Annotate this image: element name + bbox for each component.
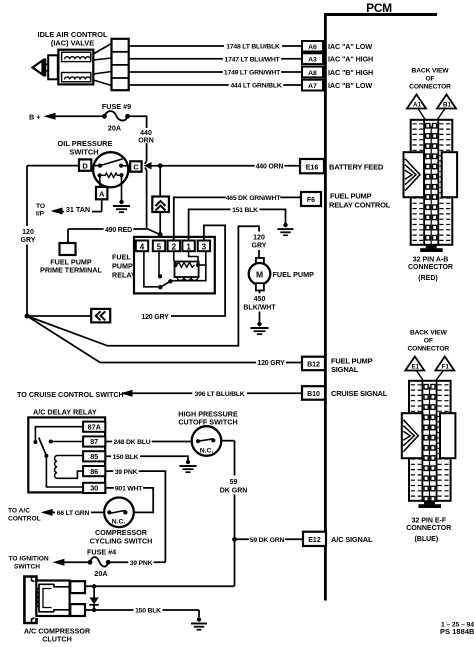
wire 59 DK GRN vertical bbox=[219, 441, 250, 587]
wire 1749 LT GRN/WHT bbox=[129, 69, 302, 77]
svg-text:PUMP: PUMP bbox=[112, 262, 133, 271]
svg-text:OF: OF bbox=[426, 76, 435, 83]
PCM pin B12 FUEL PUMP SIGNAL bbox=[302, 357, 373, 375]
A/C delay relay bbox=[28, 408, 105, 494]
svg-text:465 DK GRN/WHT: 465 DK GRN/WHT bbox=[226, 195, 282, 202]
svg-text:BACK VIEW: BACK VIEW bbox=[412, 68, 450, 75]
wire 440 ORN down to relay bbox=[159, 166, 161, 197]
wire 444 LT GRN/BLK bbox=[129, 82, 302, 90]
svg-text:TO CRUISE CONTROL SWITCH: TO CRUISE CONTROL SWITCH bbox=[17, 390, 124, 399]
svg-text:OIL PRESSURE: OIL PRESSURE bbox=[58, 139, 113, 148]
svg-text:30: 30 bbox=[90, 484, 98, 493]
inline connector symbol (up chevrons) bbox=[152, 197, 169, 213]
svg-text:PS 1884B: PS 1884B bbox=[440, 627, 474, 636]
wire 901 WHT bbox=[105, 485, 153, 513]
svg-text:BATTERY FEED: BATTERY FEED bbox=[329, 163, 384, 172]
svg-text:A1: A1 bbox=[413, 102, 421, 109]
wire 120 GRY fuel pump signal to B12 bbox=[27, 316, 302, 367]
fuel pump relay bbox=[112, 237, 215, 294]
svg-text:TO IGNITION: TO IGNITION bbox=[9, 556, 49, 563]
wire 120 GRY to fuel pump bbox=[27, 226, 269, 345]
32 pin A-B connector back view (RED) bbox=[404, 68, 458, 283]
diode across clutch coil bbox=[89, 584, 98, 612]
svg-text:RELAY CONTROL: RELAY CONTROL bbox=[329, 201, 391, 210]
PCM pin A8 IAC B HIGH bbox=[302, 67, 373, 78]
svg-text:1: 1 bbox=[186, 243, 191, 252]
svg-text:SWITCH: SWITCH bbox=[14, 564, 40, 571]
svg-text:396 LT BLU/BLK: 396 LT BLU/BLK bbox=[195, 391, 245, 398]
wire 66 LT GRN to A/C control bbox=[8, 507, 104, 522]
fuel pump prime terminal bbox=[40, 243, 103, 275]
svg-text:CRUISE SIGNAL: CRUISE SIGNAL bbox=[331, 389, 388, 398]
PCM pin F6 FUEL PUMP RELAY CONTROL bbox=[301, 192, 391, 210]
wire 396 LT BLU/BLK cruise signal bbox=[17, 390, 302, 399]
wire 440 ORN from fuse bbox=[128, 116, 157, 229]
B+ feed arrow bbox=[29, 112, 104, 121]
svg-text:59 DK GRN: 59 DK GRN bbox=[250, 537, 285, 544]
svg-text:CONNECTOR: CONNECTOR bbox=[408, 264, 453, 271]
svg-text:86: 86 bbox=[90, 467, 98, 476]
PCM pin B10 CRUISE SIGNAL bbox=[302, 386, 388, 400]
svg-text:N.C.: N.C. bbox=[200, 447, 214, 454]
svg-text:SIGNAL: SIGNAL bbox=[331, 365, 359, 374]
svg-text:(BLUE): (BLUE) bbox=[414, 536, 438, 543]
wire 120 GRY to oil pressure switch (left riser) bbox=[18, 166, 79, 316]
svg-text:32 PIN A-B: 32 PIN A-B bbox=[413, 257, 449, 264]
fuse #4 20A bbox=[87, 548, 116, 579]
svg-text:CONTROL: CONTROL bbox=[8, 515, 41, 522]
svg-text:B1: B1 bbox=[443, 102, 451, 109]
svg-text:CYCLING SWITCH: CYCLING SWITCH bbox=[90, 536, 153, 545]
wire 465 DK GRN/WHT to F6 bbox=[174, 194, 301, 241]
svg-text:A7: A7 bbox=[308, 83, 317, 90]
wire 440 ORN to battery feed bbox=[150, 162, 300, 170]
svg-text:IAC "B" HIGH: IAC "B" HIGH bbox=[328, 68, 373, 77]
svg-text:CONNECTOR: CONNECTOR bbox=[409, 84, 451, 91]
svg-text:DK GRN: DK GRN bbox=[220, 487, 248, 494]
svg-text:151 BLK: 151 BLK bbox=[232, 207, 258, 214]
svg-text:N.C.: N.C. bbox=[112, 519, 126, 526]
svg-text:120: 120 bbox=[22, 229, 34, 236]
svg-text:39 PNK: 39 PNK bbox=[130, 560, 153, 567]
svg-text:D: D bbox=[82, 161, 88, 170]
wire 248 DK BLU bbox=[105, 438, 192, 446]
svg-text:FUSE #9: FUSE #9 bbox=[102, 102, 131, 111]
svg-text:E1: E1 bbox=[412, 364, 420, 371]
svg-text:I/P: I/P bbox=[36, 211, 45, 218]
svg-text:A/C DELAY RELAY: A/C DELAY RELAY bbox=[33, 408, 97, 417]
svg-text:FUSE #4: FUSE #4 bbox=[87, 548, 116, 557]
svg-text:C: C bbox=[133, 163, 139, 172]
wire to ignition switch bbox=[9, 556, 91, 571]
svg-text:E12: E12 bbox=[308, 537, 321, 544]
ground for clutch bbox=[191, 617, 207, 629]
svg-text:CLUTCH: CLUTCH bbox=[42, 634, 72, 643]
ground for fuel pump bbox=[251, 322, 269, 334]
svg-text:PRIME TERMINAL: PRIME TERMINAL bbox=[40, 266, 103, 275]
fuel pump motor M bbox=[249, 258, 314, 291]
wire 450 BLK/WHT bbox=[243, 291, 276, 324]
svg-text:120: 120 bbox=[253, 234, 265, 241]
svg-text:BLK/WHT: BLK/WHT bbox=[243, 304, 276, 311]
ground for 151 BLK bbox=[278, 223, 294, 235]
wire 120 GRY from relay pin 3 bbox=[140, 225, 225, 320]
svg-text:IAC "A" LOW: IAC "A" LOW bbox=[328, 42, 372, 51]
wire 39 PNK lower segment bbox=[108, 559, 165, 567]
wire 490 RED bbox=[68, 226, 160, 243]
svg-text:M: M bbox=[256, 269, 263, 279]
oil pressure switch bbox=[58, 139, 142, 201]
svg-text:490 RED: 490 RED bbox=[105, 227, 132, 234]
PCM pin A3 IAC A HIGH bbox=[302, 53, 373, 64]
svg-text:A8: A8 bbox=[308, 70, 317, 77]
svg-text:59: 59 bbox=[230, 479, 238, 486]
svg-text:B10: B10 bbox=[307, 391, 320, 398]
fuse #9 20A bbox=[102, 102, 131, 133]
svg-text:F6: F6 bbox=[307, 197, 315, 204]
svg-text:444 LT GRN/BLK: 444 LT GRN/BLK bbox=[230, 83, 281, 90]
drawing number bbox=[440, 622, 474, 637]
wire 59 DK GRN to clutch bbox=[85, 585, 235, 587]
high pressure cutoff switch bbox=[178, 409, 238, 455]
wire 1747 LT BLU/WHT bbox=[129, 55, 302, 63]
junction node 120 GRY bbox=[25, 314, 92, 319]
PCM pin A7 IAC B LOW bbox=[302, 80, 372, 91]
svg-text:120 GRY: 120 GRY bbox=[141, 314, 169, 321]
svg-text:E16: E16 bbox=[306, 164, 319, 171]
svg-text:20A: 20A bbox=[94, 569, 107, 578]
svg-text:(IAC) VALVE: (IAC) VALVE bbox=[51, 39, 94, 48]
svg-text:1748 LT BLU/BLK: 1748 LT BLU/BLK bbox=[226, 44, 280, 51]
ground for 150 BLK bbox=[180, 460, 197, 472]
svg-text:IAC "A" HIGH: IAC "A" HIGH bbox=[328, 55, 373, 64]
svg-text:87A: 87A bbox=[88, 422, 101, 431]
svg-text:CONNECTOR: CONNECTOR bbox=[407, 346, 449, 353]
svg-text:248 DK BLU: 248 DK BLU bbox=[114, 439, 151, 446]
svg-text:BACK VIEW: BACK VIEW bbox=[410, 330, 448, 337]
PCM pin A6 IAC A LOW bbox=[302, 41, 372, 52]
wire 1748 LT BLU/BLK bbox=[129, 43, 302, 51]
compressor cycling switch bbox=[90, 498, 153, 546]
wire 31 TAN to I/P bbox=[36, 199, 102, 217]
arrow into C terminal bbox=[144, 162, 152, 169]
svg-text:PCM: PCM bbox=[366, 1, 392, 15]
svg-text:F1: F1 bbox=[442, 364, 450, 371]
svg-text:RELAY: RELAY bbox=[112, 271, 136, 280]
wire 151 BLK to ground bbox=[189, 206, 286, 241]
svg-text:SWITCH: SWITCH bbox=[69, 148, 98, 157]
A/C compressor clutch bbox=[24, 577, 91, 644]
32 pin E-F connector back view (BLUE) bbox=[402, 330, 456, 544]
PCM pin E12 A/C SIGNAL bbox=[303, 532, 373, 546]
svg-text:1749 LT GRN/WHT: 1749 LT GRN/WHT bbox=[224, 70, 281, 77]
svg-text:440 ORN: 440 ORN bbox=[256, 163, 284, 170]
svg-text:1747 LT BLU/WHT: 1747 LT BLU/WHT bbox=[224, 56, 280, 63]
svg-text:GRY: GRY bbox=[252, 243, 267, 250]
svg-text:A6: A6 bbox=[308, 44, 317, 51]
svg-text:20A: 20A bbox=[108, 124, 121, 133]
svg-text:FUEL PUMP: FUEL PUMP bbox=[273, 270, 315, 279]
svg-text:87: 87 bbox=[90, 437, 98, 446]
svg-text:FUEL: FUEL bbox=[112, 253, 131, 262]
wire 150 BLK clutch ground bbox=[85, 607, 199, 617]
IAC valve (idle air control) bbox=[33, 30, 129, 90]
svg-text:150 BLK: 150 BLK bbox=[135, 608, 161, 615]
svg-text:B12: B12 bbox=[307, 362, 320, 369]
svg-text:FUEL PUMP: FUEL PUMP bbox=[330, 192, 372, 201]
wire 59 DK GRN to E12 bbox=[235, 536, 304, 544]
svg-text:2: 2 bbox=[172, 243, 177, 252]
svg-text:IAC "B" LOW: IAC "B" LOW bbox=[328, 81, 372, 90]
wire to relay pin 5 bbox=[158, 212, 163, 237]
svg-text:TO: TO bbox=[36, 203, 45, 210]
svg-text:CONNECTOR: CONNECTOR bbox=[406, 525, 451, 532]
svg-text:3: 3 bbox=[202, 243, 207, 252]
svg-text:32 PIN E-F: 32 PIN E-F bbox=[411, 518, 446, 525]
inline connector symbol (left chevrons) bbox=[91, 309, 110, 323]
svg-text:A: A bbox=[99, 190, 105, 199]
PCM module boundary bbox=[324, 1, 437, 600]
svg-text:A3: A3 bbox=[308, 57, 317, 64]
svg-text:GRY: GRY bbox=[21, 237, 36, 244]
svg-text:901 WHT: 901 WHT bbox=[115, 486, 143, 493]
svg-text:4: 4 bbox=[140, 243, 145, 252]
svg-text:TO A/C: TO A/C bbox=[8, 507, 30, 514]
svg-text:5: 5 bbox=[157, 243, 162, 252]
svg-text:85: 85 bbox=[90, 452, 98, 461]
svg-text:150 BLK: 150 BLK bbox=[113, 454, 139, 461]
svg-text:450: 450 bbox=[254, 296, 266, 303]
ground at oil pressure switch bbox=[113, 200, 130, 212]
svg-text:A/C SIGNAL: A/C SIGNAL bbox=[331, 535, 373, 544]
svg-text:39 PNK: 39 PNK bbox=[115, 469, 138, 476]
svg-text:OF: OF bbox=[424, 338, 433, 345]
svg-text:B +: B + bbox=[29, 112, 40, 121]
svg-text:ORN: ORN bbox=[138, 137, 154, 144]
svg-text:31 TAN: 31 TAN bbox=[66, 205, 90, 214]
wire 39 PNK bbox=[105, 468, 165, 563]
svg-text:(RED): (RED) bbox=[418, 275, 437, 282]
PCM pin E16 BATTERY FEED bbox=[300, 159, 384, 173]
svg-text:120 GRY: 120 GRY bbox=[257, 360, 285, 367]
svg-text:66 LT GRN: 66 LT GRN bbox=[57, 510, 90, 517]
wire 150 BLK to ground bbox=[105, 453, 188, 461]
svg-text:440: 440 bbox=[140, 130, 152, 137]
